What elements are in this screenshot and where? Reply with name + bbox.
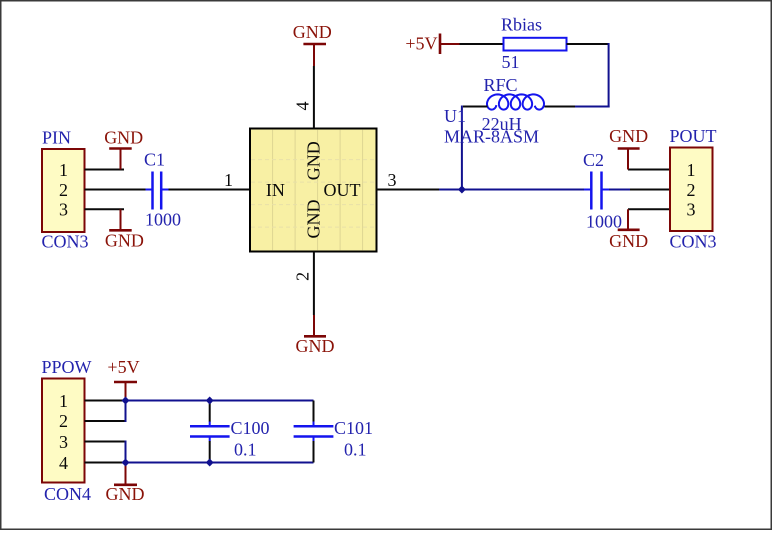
ground GND at PPOW <box>106 463 145 504</box>
svg-text:2: 2 <box>292 272 312 281</box>
svg-text:1000: 1000 <box>586 212 622 232</box>
svg-text:3: 3 <box>59 432 68 452</box>
wire down from RFC to junction <box>461 106 463 190</box>
ground GND at POUT pin1 <box>609 126 648 170</box>
wire PPOW pin1 <box>85 400 126 402</box>
wire PPOW pin3 <box>85 441 126 463</box>
ground GND at PIN pin1 <box>104 128 143 170</box>
svg-text:0.1: 0.1 <box>344 440 367 460</box>
svg-text:GND: GND <box>293 22 332 42</box>
svg-text:3: 3 <box>388 170 397 190</box>
svg-text:4: 4 <box>293 102 313 111</box>
connector PIN CON3 <box>42 128 89 252</box>
svg-text:1: 1 <box>59 160 68 180</box>
svg-text:1: 1 <box>224 170 233 190</box>
capacitor C101 0.1 <box>294 401 373 463</box>
wire POUT pin1 <box>628 169 670 171</box>
junction node rail pin1 <box>122 397 130 405</box>
svg-text:CON3: CON3 <box>670 232 717 252</box>
junction node at U1 output <box>458 186 466 194</box>
ground GND below U1 <box>296 315 335 356</box>
svg-text:CON4: CON4 <box>44 484 91 504</box>
wire U1 pin2 bottom <box>313 252 315 316</box>
wire RFC right lead <box>545 106 610 108</box>
power +5V at PPOW <box>107 357 139 401</box>
svg-text:+5V: +5V <box>405 34 437 54</box>
wire PIN pin3 <box>85 208 125 210</box>
connector POUT CON3 <box>670 126 717 252</box>
wire PPOW pin4 <box>85 462 126 464</box>
svg-text:PIN: PIN <box>42 128 71 148</box>
svg-text:PPOW: PPOW <box>42 357 92 377</box>
wire junction to C2 <box>439 189 585 191</box>
junction node C100 bottom <box>206 459 214 467</box>
wire C1 to U1 pin1 <box>169 189 251 191</box>
svg-text:1: 1 <box>59 391 68 411</box>
connector PPOW CON4 <box>42 357 92 504</box>
wire PIN pin1 <box>85 169 125 171</box>
ground GND at PIN pin3 <box>105 209 144 250</box>
wire PIN pin2 to C1 <box>85 189 146 191</box>
svg-text:GND: GND <box>296 336 335 356</box>
ground GND at POUT pin3 <box>609 209 648 251</box>
svg-text:51: 51 <box>502 52 520 72</box>
svg-text:3: 3 <box>59 200 68 220</box>
svg-text:C100: C100 <box>231 418 270 438</box>
capacitor C2 <box>583 150 622 232</box>
power +5V top <box>405 34 460 55</box>
svg-text:RFC: RFC <box>483 75 517 95</box>
wire Rbias right to corner <box>567 43 609 45</box>
svg-text:C2: C2 <box>583 150 604 170</box>
svg-text:1000: 1000 <box>145 210 181 230</box>
svg-text:GND: GND <box>304 141 324 180</box>
svg-text:GND: GND <box>105 231 144 251</box>
svg-text:MAR-8ASM: MAR-8ASM <box>444 127 539 147</box>
op-amp block U1 MAR-8ASM body <box>250 129 377 252</box>
svg-text:0.1: 0.1 <box>234 440 257 460</box>
svg-text:GND: GND <box>104 128 143 148</box>
wire corner down to RFC level <box>608 43 610 108</box>
wire RFC left lead <box>463 106 488 108</box>
svg-text:GND: GND <box>609 126 648 146</box>
svg-text:C1: C1 <box>144 150 165 170</box>
svg-text:IN: IN <box>266 180 285 200</box>
svg-text:GND: GND <box>304 200 324 239</box>
inductor RFC 22uH <box>482 75 544 134</box>
svg-text:1: 1 <box>687 160 696 180</box>
svg-text:4: 4 <box>59 453 68 473</box>
junction node C100 top <box>206 397 214 405</box>
wire C2 to POUT pin2 <box>609 189 670 191</box>
wire bottom rail GND <box>126 462 314 464</box>
wire U1 pin3 to junction <box>377 189 440 191</box>
wire +5V to Rbias <box>460 43 504 45</box>
svg-text:2: 2 <box>687 180 696 200</box>
junction node rail pin4 <box>122 459 130 467</box>
wire top rail +5V <box>126 400 314 402</box>
resistor Rbias 51 <box>501 15 567 73</box>
svg-text:CON3: CON3 <box>42 232 89 252</box>
svg-text:3: 3 <box>687 200 696 220</box>
wire PPOW pin2 <box>85 401 126 423</box>
svg-text:POUT: POUT <box>670 126 717 146</box>
svg-text:+5V: +5V <box>107 357 139 377</box>
svg-text:U1: U1 <box>444 106 466 126</box>
svg-text:2: 2 <box>59 180 68 200</box>
svg-text:OUT: OUT <box>324 180 361 200</box>
svg-text:2: 2 <box>59 411 68 431</box>
svg-text:GND: GND <box>106 484 145 504</box>
ground GND above U1 <box>293 22 332 66</box>
capacitor C100 0.1 <box>190 402 270 462</box>
svg-text:C101: C101 <box>334 418 373 438</box>
svg-text:Rbias: Rbias <box>501 15 542 35</box>
wire POUT pin3 <box>628 208 670 210</box>
wire U1 pin4 top <box>313 66 315 129</box>
capacitor C1 <box>144 150 181 230</box>
svg-text:GND: GND <box>609 231 648 251</box>
